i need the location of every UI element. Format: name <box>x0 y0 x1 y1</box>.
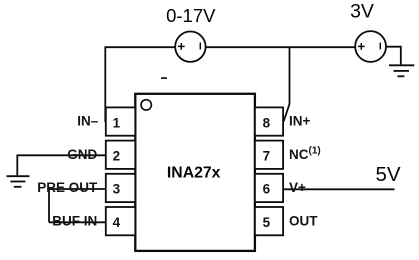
svg-text:4: 4 <box>113 215 121 230</box>
wire: BUF IN to pin 4 <box>49 221 106 223</box>
svg-text:5: 5 <box>263 215 271 230</box>
pin box 8 <box>255 107 283 135</box>
pin box 7 <box>255 141 283 169</box>
IC U1 INA27x body <box>135 94 255 251</box>
svg-text:0-17V: 0-17V <box>166 5 216 26</box>
svg-text:6: 6 <box>263 182 271 197</box>
wire: top horizontal middle segment V1 to V2 <box>206 46 356 48</box>
wire: top horizontal left segment to V1 <box>105 46 176 48</box>
ground (left) <box>7 155 30 187</box>
pin box 5 <box>255 207 283 235</box>
voltage source V1 0-17V <box>175 32 205 62</box>
svg-text:IN–: IN– <box>77 114 99 129</box>
svg-text:3V: 3V <box>350 1 374 23</box>
svg-text:1: 1 <box>113 115 121 130</box>
pin 1 indicator <box>141 100 151 110</box>
svg-text:7: 7 <box>263 149 271 164</box>
svg-text:BUF IN: BUF IN <box>52 213 97 228</box>
svg-text:INA27x: INA27x <box>167 165 221 182</box>
svg-text:3: 3 <box>113 182 121 197</box>
pin box 3 <box>106 174 136 202</box>
wire: PRE OUT from pin 3 <box>49 188 106 190</box>
wire: V2 to right ground <box>386 47 401 66</box>
wire: GND from left ground to pin 2 <box>17 154 106 156</box>
wire: vertical PRE OUT to BUF IN <box>48 189 50 222</box>
pin box 4 <box>106 207 136 235</box>
svg-text:OUT: OUT <box>289 213 318 228</box>
svg-text:GND: GND <box>67 147 97 162</box>
wire: vertical drop to pin 8 <box>284 47 290 121</box>
svg-text:5V: 5V <box>375 163 400 186</box>
pin box 2 <box>106 141 136 169</box>
svg-text:V+: V+ <box>289 180 306 195</box>
wire: top-left vertical from 0-17V to pin 1 <box>104 47 106 122</box>
pin box 1 <box>106 107 136 135</box>
stray dash mark <box>161 77 167 79</box>
svg-text:IN+: IN+ <box>289 114 311 129</box>
wire: V+ output to 5V <box>283 188 394 190</box>
pin box 6 <box>255 174 283 202</box>
svg-text:2: 2 <box>113 149 121 164</box>
ground (right) <box>389 65 414 76</box>
svg-text:PRE OUT: PRE OUT <box>37 180 98 195</box>
svg-text:8: 8 <box>263 115 271 130</box>
voltage source V2 3V <box>355 31 386 62</box>
